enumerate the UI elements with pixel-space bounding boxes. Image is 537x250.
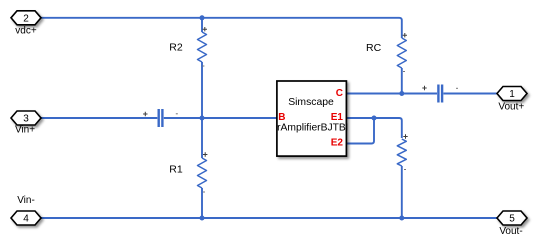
wire: RC bottom to C-node — [401, 68, 403, 94]
svg-text:E1: E1 — [331, 112, 344, 123]
wire: output capacitor to Vout+ port — [443, 93, 497, 95]
resistor RE polarity marks — [403, 134, 407, 169]
wire: R2 top stub — [201, 18, 203, 32]
svg-text:Vout-: Vout- — [499, 226, 522, 237]
svg-text:RC: RC — [366, 42, 382, 54]
svg-text:vdc+: vdc+ — [15, 26, 37, 37]
resistor RC polarity marks — [403, 33, 407, 72]
pin E2 — [331, 138, 344, 149]
port 3 hexagon — [11, 111, 41, 125]
op-amp U1 Simscape amplifier block — [271, 81, 352, 156]
wire: E1 pin to emitter corner and down to RE — [346, 118, 402, 138]
port 5 hexagon — [497, 211, 527, 225]
capacitor Cout (output coupling) — [438, 85, 442, 103]
port 4 hexagon — [11, 211, 41, 225]
node: vdc/R2 junction — [200, 15, 205, 20]
node: base junction — [200, 116, 205, 121]
node: R1/ground junction — [200, 216, 205, 221]
svg-text:Vin-: Vin- — [17, 195, 35, 206]
wire: R1 top stub — [201, 118, 203, 158]
capacitor Cin polarity marks — [143, 112, 178, 116]
svg-text:Simscape: Simscape — [288, 97, 334, 108]
wire: R2 bottom to base rail — [201, 62, 203, 118]
svg-text:Vin+: Vin+ — [15, 125, 35, 136]
wire: input capacitor to B pin of block — [164, 117, 277, 119]
wire: E2 pin up to E1 node — [346, 118, 374, 144]
svg-text:erAmplifierBJTBF: erAmplifierBJTBF — [271, 122, 352, 133]
port 2 hexagon — [11, 11, 41, 25]
node: RE/ground junction — [399, 216, 404, 221]
svg-text:B: B — [278, 112, 285, 123]
node: collector junction — [399, 91, 404, 96]
wire: top rail from vdc+ port to RC corner — [40, 18, 402, 38]
node: E1/E2 junction — [372, 116, 377, 121]
svg-text:R2: R2 — [169, 41, 183, 53]
label R1 — [169, 164, 183, 176]
wire: R1 bottom to ground rail — [201, 188, 203, 218]
pin B — [278, 112, 285, 123]
resistor R2 — [198, 32, 207, 62]
wire: Vin+ port to input capacitor — [41, 117, 157, 119]
resistor R1 polarity marks — [203, 152, 207, 192]
wire: bottom rail Vin- to Vout- — [41, 217, 497, 219]
pin E1 — [331, 112, 344, 123]
svg-text:4: 4 — [23, 214, 29, 225]
svg-text:2: 2 — [23, 13, 29, 24]
svg-text:1: 1 — [509, 89, 515, 100]
svg-text:E2: E2 — [331, 138, 344, 149]
svg-text:Vout+: Vout+ — [498, 102, 524, 113]
svg-text:C: C — [336, 88, 343, 99]
svg-text:3: 3 — [23, 114, 29, 125]
label Vout- — [499, 226, 522, 237]
svg-text:R1: R1 — [169, 164, 183, 176]
label Vout+ — [498, 102, 524, 113]
label Vin+ — [15, 125, 35, 136]
svg-text:5: 5 — [509, 214, 515, 225]
capacitor Cout polarity marks — [422, 86, 458, 90]
resistor R1 — [198, 158, 207, 188]
resistor RC — [397, 38, 406, 68]
label vdc+ — [15, 26, 37, 37]
wire: C pin to output capacitor — [346, 93, 437, 95]
label Vin- — [17, 195, 35, 206]
wire: RE bottom to ground rail — [401, 166, 403, 218]
label RC — [366, 42, 382, 54]
capacitor Cin (input coupling) — [159, 109, 163, 127]
resistor R2 polarity marks — [202, 27, 207, 66]
pin C — [336, 88, 343, 99]
label R2 — [169, 41, 183, 53]
resistor RE (emitter, unlabeled) — [397, 139, 406, 166]
port 1 hexagon — [497, 87, 527, 101]
